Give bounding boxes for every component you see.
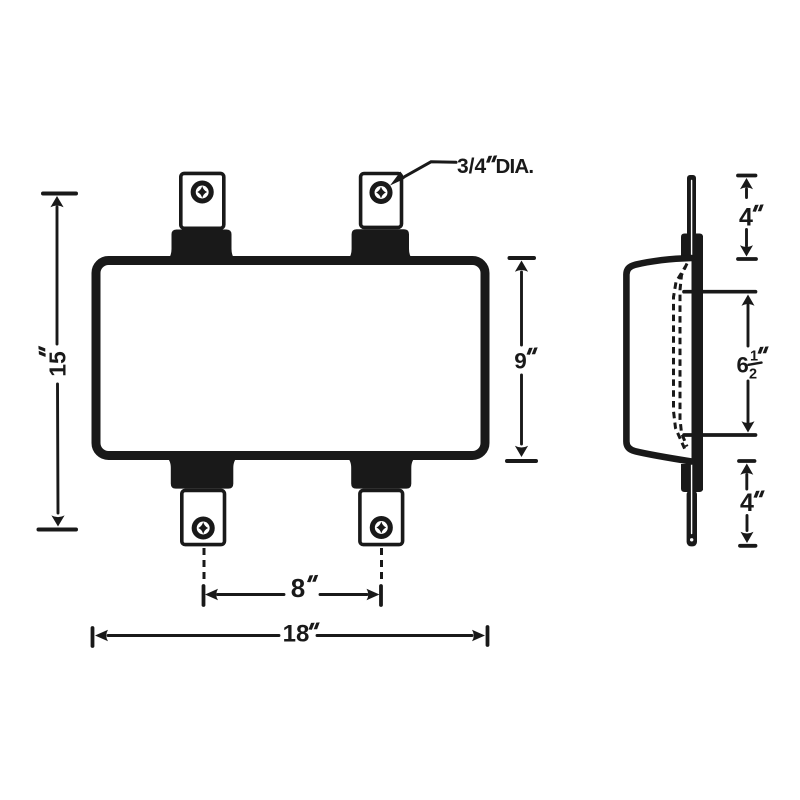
screw hole top-left xyxy=(193,183,211,201)
18 dim left line xyxy=(108,634,279,637)
4 top dim upper stem xyxy=(745,189,748,198)
svg-text:1: 1 xyxy=(750,349,758,365)
6.5 inch dimension: up arrow xyxy=(742,295,755,306)
hole centre dashed line left xyxy=(203,548,206,584)
top-right foot xyxy=(346,229,415,260)
4 top dim bottom cap xyxy=(738,257,756,261)
4 bottom dim up arrow xyxy=(740,464,753,475)
svg-text:6: 6 xyxy=(737,353,749,378)
9 dim bottom cap xyxy=(507,459,536,463)
4 bottom dim down arrow xyxy=(741,532,754,543)
4 top dim up arrow xyxy=(740,178,753,189)
6.5 dim upper stem xyxy=(747,305,750,346)
svg-text:8: 8 xyxy=(291,573,305,603)
4 inch bottom dimension: top cap xyxy=(739,459,755,463)
screw hole bottom-right xyxy=(372,519,390,537)
4 top dim lower stem xyxy=(745,230,748,247)
leader arrow to top-right hole xyxy=(390,172,405,186)
svg-text:9: 9 xyxy=(514,349,527,374)
side tab slot bottom dot xyxy=(690,538,693,541)
9 dim bottom arrow xyxy=(515,446,528,457)
4 bottom dim lower stem xyxy=(746,516,749,531)
15 dim bottom arrow xyxy=(51,515,64,526)
6.5 dim down arrow xyxy=(742,421,755,432)
svg-text:4: 4 xyxy=(739,204,753,232)
svg-text:2: 2 xyxy=(749,367,757,383)
svg-text:DIA.: DIA. xyxy=(496,155,534,178)
4 bottom dim upper stem xyxy=(745,475,748,490)
8 inch dimension: left cap xyxy=(202,586,206,605)
extension line lower xyxy=(684,433,756,437)
svg-text:18: 18 xyxy=(283,621,310,648)
4 bottom dim bottom cap xyxy=(740,544,756,548)
18 dim right cap xyxy=(486,627,490,645)
9 dim top arrow xyxy=(515,261,528,272)
hidden inner wall dashed (outer) xyxy=(680,264,687,447)
side bottom foot xyxy=(681,464,703,492)
9 dim lower stem xyxy=(520,375,523,444)
18 dim left arrow xyxy=(95,630,108,642)
screw hole bottom-left xyxy=(194,519,212,537)
15 dim lower stem xyxy=(56,384,59,513)
8 dim left arrow xyxy=(205,589,218,601)
side top tab xyxy=(687,175,696,236)
top-left mounting tab xyxy=(181,173,224,228)
top-left foot xyxy=(166,230,238,261)
extension line upper xyxy=(684,290,756,294)
hidden inner wall dashed (inner) xyxy=(674,267,686,450)
15 dim upper stem xyxy=(56,207,59,344)
bottom-left mounting tab xyxy=(182,490,225,544)
hole centre dashed line right xyxy=(380,548,383,584)
svg-text:15: 15 xyxy=(45,351,71,377)
bottom-left foot xyxy=(165,457,240,489)
top-right mounting tab xyxy=(361,174,402,228)
screw hole top-right xyxy=(372,184,390,202)
svg-text:4: 4 xyxy=(740,489,754,517)
side tab slot bottom xyxy=(691,464,693,534)
8 dim right cap xyxy=(379,586,383,605)
18 dim right line xyxy=(317,634,472,637)
side tab slot top xyxy=(691,181,693,258)
svg-text:3/4: 3/4 xyxy=(457,155,487,178)
leader line xyxy=(400,162,457,180)
15 dim bottom cap xyxy=(39,528,77,532)
bottom-right mounting tab xyxy=(360,490,403,544)
4 top dim down arrow xyxy=(740,245,753,256)
side top foot xyxy=(681,234,703,263)
15 dim top arrow xyxy=(50,196,63,207)
18 dim right arrow xyxy=(472,630,485,642)
6.5 dim lower stem xyxy=(747,381,750,423)
enclosure box outline xyxy=(96,261,485,456)
15 inch dimension: top cap xyxy=(43,192,76,196)
flange plate xyxy=(691,236,704,490)
18 inch dimension: left cap xyxy=(91,628,95,646)
9 inch dimension: top cap xyxy=(510,256,535,260)
8 dim right line xyxy=(320,593,367,596)
8 dim left line xyxy=(218,593,285,596)
side body of enclosure xyxy=(626,258,691,462)
4 inch top dimension: top cap xyxy=(738,174,756,178)
bottom-right foot xyxy=(345,457,417,489)
side bottom tab xyxy=(687,490,697,546)
8 dim right arrow xyxy=(367,589,380,601)
9 dim upper stem xyxy=(520,272,523,345)
